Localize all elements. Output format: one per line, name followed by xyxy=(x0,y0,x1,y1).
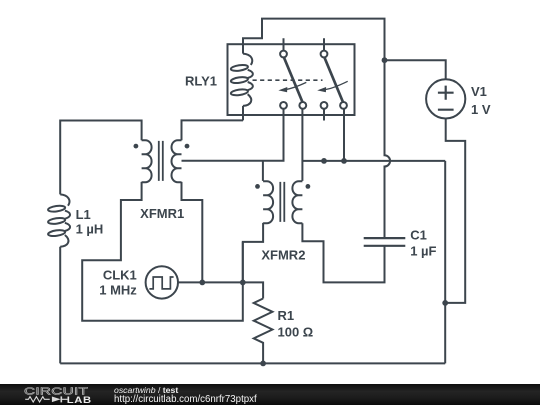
wire XFMR1 secondary bottom to CLK row xyxy=(182,182,203,283)
RLY1 switch blade 1 xyxy=(284,57,303,102)
svg-text:1 µH: 1 µH xyxy=(76,222,104,237)
XFMR1 core bars xyxy=(159,141,163,181)
resistor R1 xyxy=(254,299,273,364)
XFMR2 core bars xyxy=(280,182,284,222)
XFMR2 primary winding xyxy=(263,181,273,223)
C1 top plate xyxy=(364,237,406,239)
footer black bar xyxy=(0,384,540,405)
svg-text:LAB: LAB xyxy=(67,396,92,405)
wire relay contact3 short stub xyxy=(323,109,325,120)
RLY1 body box xyxy=(228,44,355,115)
node junction dot at 324,160.9 xyxy=(321,158,327,164)
V1 minus sign xyxy=(438,109,454,111)
RLY1 pole terminal circles xyxy=(280,51,287,58)
RLY1 switch blade 2 xyxy=(324,57,343,102)
relay RLY1 xyxy=(228,38,355,120)
svg-text:1 MHz: 1 MHz xyxy=(99,283,137,298)
svg-text:XFMR2: XFMR2 xyxy=(261,248,305,263)
svg-text:1 µF: 1 µF xyxy=(410,244,436,259)
capacitor C1 xyxy=(364,238,406,246)
voltage source V1 xyxy=(426,79,465,118)
L1 coil loops xyxy=(60,194,69,205)
transformer XFMR2 xyxy=(255,181,310,223)
wire XFMR1 primary bottom long U path xyxy=(82,182,243,321)
svg-text:100 Ω: 100 Ω xyxy=(278,325,314,340)
svg-text:C1: C1 xyxy=(410,228,427,243)
transformer XFMR1 xyxy=(134,140,190,182)
node junction dot at 444.8,302.9 xyxy=(442,300,448,306)
node junction dot at 382.5,60.2 xyxy=(382,57,388,63)
XFMR1 secondary polarity dot xyxy=(185,144,190,149)
RLY1 actuation arrow 2 xyxy=(317,81,348,92)
XFMR1 primary winding xyxy=(142,140,152,182)
wire relay contact2 down to XFMR2 secondary top xyxy=(301,109,303,181)
XFMR2 secondary polarity dot xyxy=(306,184,311,189)
V1 plus sign xyxy=(438,86,454,100)
wire relay contact1 down and left to XFMR1 tap xyxy=(182,109,284,161)
svg-text:XFMR1: XFMR1 xyxy=(140,206,184,221)
wire V1 bottom to lower junction xyxy=(445,119,465,303)
wire bottom rail xyxy=(60,362,445,364)
inductor L1 xyxy=(48,194,70,246)
svg-text:R1: R1 xyxy=(278,308,295,323)
wire horizontal node row right segment xyxy=(302,160,445,162)
wire XFMR1 primary top to left rail xyxy=(60,121,141,195)
RLY1 throw terminal circles xyxy=(280,102,287,109)
wire CLK1 output row to R1 top xyxy=(178,282,263,298)
svg-text:L1: L1 xyxy=(76,207,91,222)
wire vertical with hop down to C1 xyxy=(385,60,391,237)
svg-text:RLY1: RLY1 xyxy=(185,74,217,89)
wire relay coil bottom to XFMR1 secondary top xyxy=(182,120,244,140)
XFMR2 secondary winding xyxy=(292,181,302,223)
node junction dot at 242.8,282.4 xyxy=(240,280,246,286)
wire top loop from relay coil to V1 xyxy=(243,19,385,61)
V1 body circle xyxy=(426,79,465,118)
logo resistor+diode wire xyxy=(25,396,67,402)
RLY1 pole stubs xyxy=(284,38,325,50)
wire right vertical down to bottom rail xyxy=(444,161,446,364)
wire L1 bottom to bottom rail xyxy=(59,247,61,364)
C1 bottom plate xyxy=(364,245,406,247)
svg-text:V1: V1 xyxy=(471,84,487,99)
wire junction to V1 top xyxy=(385,60,446,79)
CLK1 square-wave glyph xyxy=(149,277,173,289)
XFMR1 primary polarity dot xyxy=(134,144,139,149)
XFMR1 secondary winding xyxy=(172,140,182,182)
XFMR2 primary polarity dot xyxy=(255,184,260,189)
svg-text:http://circuitlab.com/c6nrfr73: http://circuitlab.com/c6nrfr73ptpxf xyxy=(114,394,257,405)
RLY1 actuation arrow 1 xyxy=(278,82,306,92)
RLY1 coil leads xyxy=(242,52,244,120)
clock source CLK1 xyxy=(146,266,178,298)
CLK1 body circle xyxy=(146,266,178,298)
wire T-drop to XFMR2 primary top xyxy=(262,161,264,181)
RLY1 actuation dashed link xyxy=(253,79,323,81)
svg-text:CLK1: CLK1 xyxy=(103,268,137,283)
wire C1 bottom to XFMR2 secondary bottom xyxy=(302,223,384,282)
svg-text:1 V: 1 V xyxy=(471,102,491,117)
node junction dot at 202.3,282.4 xyxy=(199,280,205,286)
RLY1 coil winding xyxy=(231,54,253,106)
wire relay contact4 stub down to node row xyxy=(343,109,345,161)
node junction dot at 344,160.9 xyxy=(341,158,347,164)
node junction dot at 263.1,363.4 (R1 bottom) xyxy=(260,361,266,367)
wire XFMR2 primary bottom down to CLK row junction xyxy=(243,223,263,283)
